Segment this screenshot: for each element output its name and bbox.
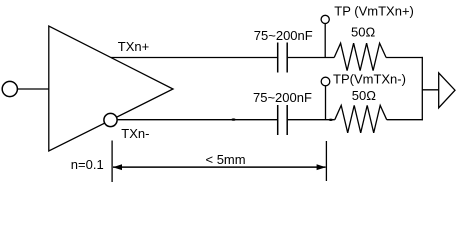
svg-text:TP(VmTXn-): TP(VmTXn-) <box>333 72 406 87</box>
capacitor C2 plates (bottom) <box>277 105 279 135</box>
svg-text:75~200nF: 75~200nF <box>253 90 312 105</box>
svg-text:50Ω: 50Ω <box>352 88 376 103</box>
test point TP(VmTXn-) circle <box>321 77 330 86</box>
wire cap to resistor (bottom) <box>288 119 335 121</box>
resistor R1 zigzag (top) <box>334 43 386 70</box>
driver amplifier triangle <box>49 26 173 151</box>
inversion bubble <box>104 113 117 126</box>
svg-text:n=0.1: n=0.1 <box>71 157 104 172</box>
dimension line <box>113 166 326 168</box>
test point TP (VmTXn+) stem <box>324 23 326 57</box>
dimension right tick <box>325 141 327 181</box>
right vertical bus <box>421 57 423 120</box>
svg-text:75~200nF: 75~200nF <box>254 28 313 43</box>
resistor R2 zigzag (bottom) <box>335 105 387 132</box>
wire resistor to bus (top) <box>386 57 423 59</box>
wire bus to receiver <box>422 89 438 91</box>
junction artifact dot right of bottom TP <box>329 119 333 121</box>
wire cap to resistor (top) <box>288 57 334 59</box>
svg-text:TP (VmTXn+): TP (VmTXn+) <box>334 3 414 18</box>
wire TXn+ <box>111 57 277 59</box>
junction artifact dot on TXn- wire <box>231 118 235 120</box>
svg-text:50Ω: 50Ω <box>351 24 375 39</box>
dimension arrowhead left <box>113 164 122 170</box>
wire TXn- <box>118 119 278 121</box>
svg-text:TXn+: TXn+ <box>118 39 149 54</box>
wire resistor to bus (bottom) <box>387 119 423 121</box>
input terminal circle <box>2 81 17 96</box>
capacitor C1 plates (top) <box>277 43 279 73</box>
dimension arrowhead right <box>317 164 326 170</box>
receiver triangle <box>439 73 455 108</box>
svg-text:< 5mm: < 5mm <box>206 152 246 167</box>
svg-text:TXn-: TXn- <box>121 126 149 141</box>
test point TP(VmTXn-) stem <box>325 85 327 119</box>
test point TP (VmTXn+) circle <box>321 15 329 23</box>
dimension left tick <box>111 141 113 183</box>
wire input to driver <box>18 88 49 90</box>
